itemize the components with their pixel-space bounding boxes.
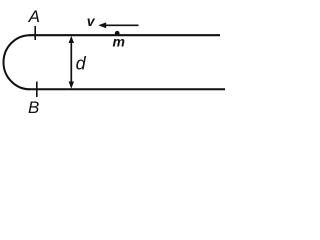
svg-text:A: A	[28, 7, 40, 26]
dimension arrow d (double-headed vertical)	[69, 36, 74, 89]
svg-text:v: v	[87, 13, 96, 29]
wire bottom rail	[29, 88, 225, 90]
node B tick	[36, 82, 38, 98]
svg-text:d: d	[76, 53, 87, 73]
wire left semicircular cap	[4, 35, 30, 89]
velocity arrow v (pointing left)	[98, 22, 138, 28]
svg-text:B: B	[28, 98, 39, 117]
svg-text:m: m	[113, 34, 125, 50]
node A tick	[34, 26, 36, 40]
wire top rail	[29, 34, 220, 36]
mass m dot	[115, 31, 120, 36]
